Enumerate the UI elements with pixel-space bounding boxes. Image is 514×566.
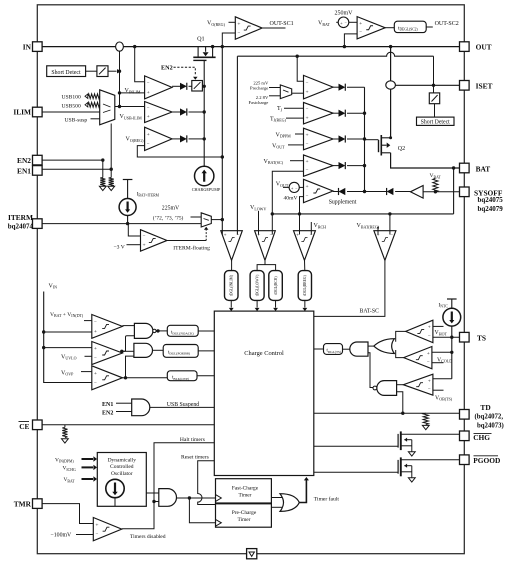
wire CHG drain to CHG pin — [401, 433, 460, 435]
svg-text:+: + — [427, 351, 430, 357]
pin TS — [460, 332, 470, 342]
wire V_OB output to NAND2 — [397, 384, 404, 386]
wire V_BAT(SC) to M4 — [290, 160, 304, 162]
gate NAND1 — [134, 323, 153, 338]
svg-text:Timers disabled: Timers disabled — [130, 534, 166, 540]
wire V_OUT to M3 — [288, 144, 304, 146]
wire V_OUT to 40mV source — [283, 186, 289, 188]
svg-text:TJ: TJ — [277, 106, 283, 112]
svg-text:−: − — [306, 142, 309, 147]
wire osc output to AND4 — [146, 492, 159, 494]
node junction TD wire tap — [401, 412, 404, 415]
wire L2 to NAND1 second input — [122, 336, 135, 352]
svg-text:VUSB-ILIM: VUSB-ILIM — [120, 114, 143, 120]
block Short Detect right — [417, 117, 455, 125]
ground arrow TD pulldown — [422, 425, 429, 429]
wire ISET rail horizontal with hop — [237, 52, 433, 56]
svg-text:−: − — [306, 168, 309, 173]
pin ITERM — [33, 219, 43, 229]
svg-text:−: − — [147, 81, 150, 86]
svg-text:IN: IN — [23, 42, 32, 51]
wire OR1 output to AND5 — [368, 345, 374, 347]
svg-text:Timer: Timer — [239, 492, 252, 498]
svg-text:−3 V: −3 V — [114, 244, 125, 250]
wire vertical from IN rail to ISET bubble — [390, 47, 392, 81]
wire T3 output to pill4 — [304, 260, 306, 270]
ground arrow EN2 pulldown — [99, 186, 106, 190]
node junction supplement rail row2 — [363, 112, 366, 115]
wire V_IN rail — [44, 292, 92, 383]
svg-text:VBAT: VBAT — [318, 20, 330, 26]
svg-text:EN1: EN1 — [17, 166, 31, 175]
svg-text:VOVP: VOVP — [61, 370, 74, 376]
svg-text:bq24073): bq24073) — [477, 422, 504, 429]
wire EN1 to AND3 — [116, 402, 132, 404]
wire TMR pin to timer comparator — [42, 504, 93, 524]
wire TS deglitch box to Charge Control — [314, 348, 324, 350]
node junction L1comp plus tap — [118, 91, 121, 94]
svg-text:+: + — [306, 90, 309, 96]
svg-text:+: + — [143, 243, 146, 249]
timer box t_DEGL(SC2) — [394, 21, 426, 32]
wire reset timers with hop — [198, 461, 216, 505]
wire ISET rail left vertical down to comparator T1 — [236, 56, 238, 234]
wire switch to IN sense vertical with arrow — [108, 70, 117, 72]
svg-text:−: − — [94, 320, 97, 325]
wire bubble to Q2 source — [390, 89, 392, 138]
svg-text:250mV: 250mV — [335, 11, 354, 17]
wire EN2 to AND3 — [116, 411, 132, 413]
svg-text:+: + — [147, 114, 150, 120]
svg-text:−: − — [428, 387, 431, 392]
svg-text:CE: CE — [19, 422, 29, 431]
gate AND2 — [134, 343, 153, 357]
voltage source 250mV circle — [338, 17, 349, 28]
svg-text:+: + — [237, 21, 240, 27]
block Pre-Charge Timer — [216, 504, 272, 527]
transistor PGOOD NMOS open drain — [400, 457, 402, 476]
pin SYSOFF — [460, 187, 470, 197]
wire mux2 output to T1 — [211, 219, 222, 221]
wire OUT-SC2 inverting input to OUT rail — [344, 34, 357, 47]
node junction mux output join — [118, 105, 121, 108]
svg-text:EN1: EN1 — [102, 402, 113, 408]
resistor CE pulldown — [64, 425, 66, 428]
wire ISET rail right vertical to short-detect switch — [433, 56, 435, 93]
svg-text:−: − — [270, 233, 273, 238]
timer pill box 1 — [225, 271, 239, 301]
svg-text:tDGL(BREG): tDGL(BREG) — [303, 275, 307, 296]
wire ITERM pin to mux2 — [42, 223, 201, 225]
svg-text:−: − — [306, 81, 309, 86]
node junction supplement rail row4 — [363, 164, 366, 167]
wire C3L feedback to OUT rail — [137, 146, 222, 157]
wire NAND2 second input from TD wire — [397, 392, 403, 413]
node junction supplement rail row3 gate Q2 — [363, 137, 366, 140]
node junction battery rail to T4 — [388, 212, 391, 215]
gate AND3 USB suspend — [132, 399, 150, 416]
wire supplement rail vertical — [364, 87, 366, 191]
wire CE to Charge Control — [42, 424, 214, 426]
svg-text:VOB(TS): VOB(TS) — [435, 395, 453, 401]
node junction OUT-SC2 tap — [343, 45, 346, 48]
op-amp V_HOT comparator facing left — [406, 320, 433, 342]
wire ISET pin wire — [395, 84, 459, 86]
buffer amp facing left on SYSOFF path — [410, 186, 423, 199]
wire L3 to blanking box3 — [126, 377, 168, 379]
svg-text:bq24079: bq24079 — [478, 205, 504, 213]
wire -3V to comparator plus — [127, 244, 141, 246]
timer box t_DGL(PGOOD) — [163, 345, 198, 358]
diode M1 output — [333, 86, 339, 88]
wire 40mV to M5 — [299, 186, 303, 188]
svg-text:OUT-SC2: OUT-SC2 — [435, 21, 459, 27]
ground arrow EN1 pulldown — [108, 186, 115, 190]
wire supplement row to second diode — [365, 191, 387, 193]
svg-text:−: − — [237, 31, 240, 36]
svg-text:VDPPM: VDPPM — [276, 132, 292, 138]
wire switch box to Short Detect 2 — [434, 104, 436, 117]
voltage source 40mV circle — [289, 182, 299, 192]
svg-text:+: + — [306, 115, 309, 121]
svg-text:VHOT: VHOT — [435, 330, 448, 336]
wire box1 to Charge Control — [198, 330, 214, 332]
pin BAT — [460, 163, 470, 173]
op-amp OUT-SC1 comparator — [235, 17, 262, 40]
svg-text:+: + — [340, 20, 343, 25]
svg-text:+: + — [147, 132, 150, 138]
timer box t_DGL(NOACK) — [167, 325, 198, 336]
svg-text:USB100: USB100 — [62, 95, 81, 101]
comparator T4 down-facing — [374, 231, 396, 261]
switch box input short detect — [97, 66, 108, 77]
svg-text:OUT-SC1: OUT-SC1 — [270, 21, 294, 27]
wire to C1L plus input — [120, 92, 145, 94]
gate OR2 timer fault — [280, 494, 299, 512]
dashed wire EN2 to switch box — [174, 67, 196, 74]
wire EN2 pin to pulldown — [42, 160, 103, 177]
ground arrow CE pulldown — [62, 439, 69, 443]
wire fast timer to OR2 — [271, 497, 282, 499]
svg-text:Timer: Timer — [238, 517, 251, 523]
wire NAND1 output to deglitch box — [156, 330, 167, 332]
wire TS pin — [433, 336, 460, 338]
wire T_J(REG) to M2 — [286, 117, 304, 119]
svg-text:+: + — [95, 522, 98, 528]
ground arrow PGOOD source — [408, 478, 415, 482]
timer box t_DGL(TS) — [324, 344, 343, 355]
wire M1 inverting input drop — [297, 56, 303, 81]
resistor USB500 — [85, 103, 88, 107]
wire box3 to Charge Control — [197, 375, 214, 377]
wire mux susp down to EN1 — [110, 124, 112, 178]
resistor USB100 — [85, 94, 88, 98]
current sense bubble on IN rail — [116, 42, 124, 51]
wire ITERM comparator output — [167, 240, 206, 242]
node junction ISET rail to M1 inverting — [296, 55, 299, 58]
node junction V_BAT resistor to SYSOFF wire — [434, 190, 437, 193]
wire V_HOT ref stub — [433, 325, 444, 327]
wire halt line to AND4 — [154, 501, 159, 503]
op-amp C3L output regulation comparator — [145, 127, 172, 150]
resistor TD pulldown — [423, 413, 428, 424]
svg-text:VINLIM: VINLIM — [125, 88, 141, 94]
svg-text:tDGL(NOACK): tDGL(NOACK) — [171, 330, 194, 335]
wire short detect to switch — [86, 70, 97, 72]
diode C1L output — [172, 85, 180, 87]
wire AND2 output to deglitch box2 — [153, 349, 164, 351]
wire OUT-SC1 output — [262, 27, 285, 29]
svg-text:BAT-SC: BAT-SC — [360, 308, 380, 314]
wire PGOOD drain to PGOOD pin — [401, 459, 460, 461]
wire deglitch box output — [426, 26, 433, 28]
wire AND5 output to TS deglitch box — [343, 348, 350, 350]
wire OUT-SC2 output to deglitch box — [385, 27, 394, 29]
wire L1 output to NAND1 — [122, 325, 134, 327]
wire halt timers — [122, 443, 215, 529]
svg-text:EN2: EN2 — [17, 156, 31, 165]
wire L1 minus stub — [84, 320, 92, 322]
diode M2 output — [333, 112, 339, 114]
arrow osc input 3 — [82, 478, 94, 480]
wire pill 1 to Charge Control — [230, 300, 232, 307]
node junction chargepump rail row2 — [203, 110, 206, 113]
svg-text:−: − — [94, 381, 97, 386]
svg-text:Short Detect: Short Detect — [421, 119, 451, 125]
svg-text:+: + — [94, 371, 97, 377]
wire NAND2 output up to AND5 — [368, 353, 373, 388]
resistor pullup to V_BAT on SYSOFF — [433, 179, 438, 192]
wire PGOOD gate from Charge Control — [314, 471, 398, 473]
svg-text:+: + — [94, 329, 97, 335]
svg-text:BAT: BAT — [476, 164, 491, 173]
pin TD — [460, 410, 470, 420]
node junction V_IN rail to L2 — [42, 346, 45, 349]
node junction halt to AND4 — [152, 500, 155, 503]
svg-text:ITERM-floating: ITERM-floating — [173, 245, 210, 252]
current source I_TERM — [123, 179, 133, 181]
node junction TS rail V_COLD — [450, 351, 453, 354]
wire EN1 pin to pulldown — [42, 168, 111, 170]
wire V_IN to L2 plus — [44, 347, 92, 349]
node junction EN1 mux susp rail — [110, 168, 113, 171]
svg-text:−: − — [428, 334, 431, 339]
svg-text:−: − — [306, 194, 309, 199]
pin PGOOD — [460, 455, 470, 465]
timer box t_BLK(OVP) — [167, 371, 197, 381]
wire ITERM to comparator minus — [128, 224, 140, 236]
svg-text:−100mV: −100mV — [51, 533, 72, 539]
node junction V_IN rail to L1 — [42, 330, 45, 333]
svg-text:Q2: Q2 — [398, 146, 405, 152]
pin ILIM — [33, 107, 43, 117]
wire TD from Charge Control to TD pin — [314, 412, 460, 414]
svg-text:Dynamically: Dynamically — [108, 458, 137, 464]
svg-text:TD: TD — [480, 403, 490, 412]
wire USB-susp to mux — [91, 118, 100, 120]
node junction battery rail left end — [271, 212, 274, 215]
node junction Q1 drain — [211, 45, 214, 48]
svg-text:+: + — [291, 185, 294, 190]
svg-text:tDGL(LOWV): tDGL(LOWV) — [255, 274, 259, 296]
svg-text:ITERM: ITERM — [8, 213, 33, 222]
svg-text:−: − — [427, 361, 430, 366]
op-amp M5 supplement comparator — [304, 179, 334, 202]
svg-text:−: − — [306, 107, 309, 112]
current sense bubble ISET — [386, 81, 396, 89]
resistor EN2 pulldown — [100, 178, 105, 187]
gate AND4 timer clock gate — [159, 489, 177, 507]
wire V_BAT(REG) stub to T4 — [377, 227, 379, 235]
svg-text:Supplement: Supplement — [329, 199, 357, 205]
wire V_O(REG) input to OUT-SC1 — [229, 21, 236, 23]
wire Q2 gate — [365, 139, 379, 141]
comparator T2 down-facing — [255, 231, 276, 261]
svg-text:VBAT(REG): VBAT(REG) — [357, 223, 380, 229]
pin EN1 — [33, 166, 43, 176]
node junction battery rail t3 tap — [298, 212, 301, 215]
svg-text:−: − — [147, 142, 150, 147]
svg-text:Reset timers: Reset timers — [181, 454, 209, 460]
transistor Q1 pass PMOS — [193, 56, 215, 58]
wire IN bubble down to mux output — [119, 51, 121, 106]
svg-text:VOUT: VOUT — [272, 143, 285, 149]
wire I_NTC to TS rail — [451, 326, 453, 379]
wire pill 3 to Charge Control — [275, 300, 277, 307]
pin VSS thermal pad — [247, 549, 257, 559]
svg-text:−: − — [94, 356, 97, 361]
dashed wire comparator to mux2 select — [205, 230, 207, 241]
block Short Detect left — [47, 66, 86, 77]
svg-text:+: + — [428, 378, 431, 384]
timer pill box 4 — [298, 271, 311, 301]
gate AND5 facing left — [350, 342, 368, 356]
svg-text:VUVLO: VUVLO — [61, 354, 77, 360]
wire mux1 output to C2L — [115, 106, 145, 108]
wire OUT sense rail vertical — [221, 47, 223, 235]
svg-text:+: + — [306, 184, 309, 190]
transistor CHG NMOS open drain — [400, 431, 402, 450]
svg-text:+: + — [359, 21, 362, 27]
wire TS rail to V_OB comparator — [433, 378, 452, 380]
wire mux M1 output — [292, 92, 304, 94]
wire V_DPPM to M3 — [295, 133, 304, 135]
wire switch box to chargepump rail — [202, 85, 204, 87]
wire 2.25V fastcharge input — [269, 95, 280, 97]
op-amp L2 UVLO comparator — [92, 342, 123, 365]
timer pill box 2 — [250, 271, 264, 301]
mux reference select for M1 — [280, 85, 291, 99]
wire V_LOWV stub to T2 — [258, 211, 260, 235]
op-amp M1 input current limit comparator — [304, 75, 334, 99]
svg-text:−: − — [390, 233, 393, 238]
op-amp L3 OVP comparator — [92, 366, 123, 390]
pin OUT — [460, 42, 470, 52]
svg-text:Timer fault: Timer fault — [314, 496, 340, 503]
svg-text:Precharge: Precharge — [250, 86, 268, 91]
svg-text:40mV: 40mV — [284, 196, 298, 202]
svg-text:TJ(REG): TJ(REG) — [270, 116, 287, 122]
wire 225mV precharge input — [269, 87, 280, 89]
wire CHG gate from Charge Control — [314, 445, 398, 447]
wire AND3 output USB Suspend to Charge Control — [150, 406, 215, 408]
wire V_HOT output to OR1 — [396, 331, 406, 341]
svg-text:EN2: EN2 — [102, 410, 113, 416]
svg-text:225mV: 225mV — [162, 206, 180, 212]
switch box EN2 controlled — [192, 81, 203, 92]
wire V_OB ref stub — [433, 389, 444, 391]
pin EN2 — [33, 155, 43, 165]
svg-text:+: + — [223, 233, 226, 239]
wire battery rail drop to T4 — [389, 214, 391, 235]
node junction OUT rail tap — [221, 45, 224, 48]
wire battery sense rail horizontal — [272, 213, 453, 215]
svg-text:−: − — [359, 31, 362, 36]
svg-text:+: + — [428, 325, 431, 331]
svg-text:−: − — [147, 106, 150, 111]
svg-text:Charge Control: Charge Control — [244, 350, 284, 357]
svg-text:tDGL(TS): tDGL(TS) — [327, 349, 342, 354]
svg-text:Controlled: Controlled — [110, 464, 134, 470]
svg-text:Oscillator: Oscillator — [111, 471, 133, 477]
wire V_UVLO to L2 — [85, 355, 92, 357]
svg-text:+: + — [306, 159, 309, 165]
node junction supplement rail bottom — [363, 190, 366, 193]
wire V_COLD plus to TS rail — [432, 351, 452, 353]
svg-text:TS: TS — [477, 334, 486, 343]
svg-text:tDGL(POKBB): tDGL(POKBB) — [168, 350, 190, 355]
svg-text:TMR: TMR — [14, 500, 32, 509]
op-amp V_OB(TS) comparator facing left — [403, 374, 433, 395]
svg-text:(bq24072,: (bq24072, — [475, 414, 504, 421]
op-amp C2L usb limit comparator — [145, 102, 172, 123]
svg-text:bq24074: bq24074 — [8, 222, 34, 230]
clock input triangle pre timer — [216, 519, 222, 526]
wire Q2 drain to BAT pin — [391, 153, 460, 168]
pin CHG — [460, 431, 470, 441]
svg-text:VIN: VIN — [49, 283, 58, 289]
block Fast-Charge Timer — [216, 479, 272, 503]
diode M5 output left-pointing — [333, 191, 339, 193]
svg-text:VO(REG): VO(REG) — [126, 137, 145, 143]
current source inside oscillator — [106, 479, 124, 497]
node junction ITERM wire — [126, 222, 129, 225]
diode C3L output — [172, 138, 180, 140]
svg-text:tBLK(OVP): tBLK(OVP) — [172, 376, 189, 381]
current source I_NTC — [447, 298, 457, 300]
svg-text:Q1: Q1 — [197, 36, 205, 43]
node junction short detect tap — [118, 70, 121, 73]
arrow osc input 1 — [82, 458, 94, 460]
op-amp M4 battery short comparator — [304, 155, 334, 176]
svg-text:VBAT(SC): VBAT(SC) — [264, 159, 284, 165]
wire BAT vertical to battery rail — [453, 168, 455, 214]
wire T1 output to pill1 — [231, 260, 233, 271]
gate NAND2 facing left — [377, 381, 397, 396]
current source charge pump — [195, 166, 214, 185]
svg-text:Short Detect: Short Detect — [51, 70, 81, 76]
wire L2 output junction — [122, 350, 133, 352]
wire T_J to M2 — [284, 107, 304, 109]
transistor Q2 PMOS — [380, 135, 382, 156]
wire V_OVP to L3 — [81, 371, 92, 373]
comparator T3 down-facing — [294, 231, 316, 261]
svg-text:−: − — [95, 532, 98, 537]
wire 225mV select to mux2 — [191, 216, 202, 218]
svg-text:VO(REG): VO(REG) — [207, 21, 226, 27]
timer pill box 3 — [269, 271, 283, 301]
svg-text:USB500: USB500 — [62, 103, 81, 109]
